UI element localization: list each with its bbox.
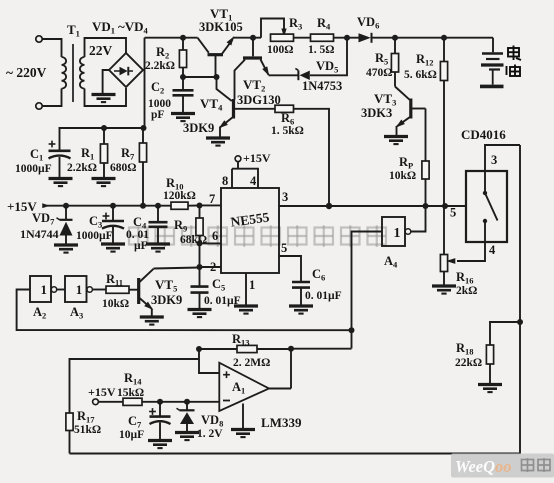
label pin 3 xyxy=(491,153,497,167)
ground at pin 1 xyxy=(234,306,258,314)
label A3 xyxy=(70,305,83,321)
node pin3/R6 xyxy=(326,203,332,209)
svg-text:pF: pF xyxy=(151,109,164,121)
rheostat R3 wiper loop xyxy=(261,19,287,38)
wire A4 output xyxy=(411,206,426,232)
node R7 bottom xyxy=(140,203,146,209)
label C5 value xyxy=(204,295,241,307)
label C3 xyxy=(89,214,102,230)
label VT5 type xyxy=(151,293,182,307)
label R18 xyxy=(456,341,474,357)
svg-text:2kΩ: 2kΩ xyxy=(456,285,477,297)
ground at VD8 xyxy=(175,433,199,441)
wire R12 to R16 xyxy=(443,81,445,255)
label R13 value xyxy=(233,357,270,369)
label R10 xyxy=(166,176,184,192)
label VD1~VD4 xyxy=(92,19,149,36)
label R3 xyxy=(289,16,302,32)
svg-text:3DK3: 3DK3 xyxy=(361,106,392,120)
svg-text:+15V: +15V xyxy=(243,151,271,165)
label VT3 type xyxy=(361,106,392,120)
label VT4 type xyxy=(183,121,214,135)
resistor R17 xyxy=(66,413,73,454)
capacitor C6 xyxy=(292,282,310,305)
ground at R16 xyxy=(432,286,456,294)
label R6 value xyxy=(271,125,304,137)
svg-text:8: 8 xyxy=(222,174,228,188)
wire VT1 base node xyxy=(183,76,217,78)
label R14 xyxy=(124,371,142,387)
label ~220V xyxy=(6,65,47,80)
zener VD5 xyxy=(295,68,309,80)
NE555 pin 5 wire xyxy=(279,256,301,282)
zener VD8 xyxy=(177,402,195,432)
svg-text:7: 7 xyxy=(209,192,215,206)
label pin 7 xyxy=(209,192,215,206)
IC CD4016 box xyxy=(466,171,507,242)
label pin 1 xyxy=(249,278,255,292)
label R12 value xyxy=(404,69,437,81)
label R17 xyxy=(77,409,95,425)
label VD8 value xyxy=(197,428,223,440)
resistor R9 xyxy=(196,206,203,268)
node C1/R1 junction xyxy=(101,125,107,131)
resistor R7 xyxy=(139,128,146,206)
label R16 value xyxy=(456,285,477,297)
label R12 xyxy=(416,52,434,68)
svg-text:+15V: +15V xyxy=(88,385,116,399)
label VD7 xyxy=(32,211,55,227)
svg-text:1: 1 xyxy=(249,278,255,292)
transformer T1 primary winding xyxy=(62,57,67,89)
label VT4 xyxy=(200,96,223,113)
label R11 xyxy=(106,272,123,288)
label R4 xyxy=(317,16,331,32)
wire primary bottom xyxy=(42,89,61,107)
node VT1 base xyxy=(214,74,220,80)
svg-text:2.2kΩ: 2.2kΩ xyxy=(67,162,97,174)
node C7 xyxy=(157,399,163,405)
label R17 value xyxy=(74,424,101,436)
resistor R3 xyxy=(271,34,294,41)
node C3 xyxy=(110,203,116,209)
ground at C5 xyxy=(188,310,212,318)
ground at C6 xyxy=(289,306,313,314)
wire battery lead xyxy=(492,38,494,53)
label R11 value xyxy=(102,298,129,310)
label R13 xyxy=(232,332,250,348)
label pin 3 (NE555) xyxy=(282,190,288,204)
svg-text:4: 4 xyxy=(489,243,496,257)
bridge rectifier VD1~VD4 xyxy=(109,53,143,87)
label C1 xyxy=(30,147,43,163)
node pin2 xyxy=(197,264,203,270)
node pin7/R9 xyxy=(197,203,203,209)
svg-text:1: 1 xyxy=(41,282,48,297)
label VT2 xyxy=(243,77,265,94)
wire R4 to VD6 node xyxy=(334,37,359,39)
label LM339 xyxy=(261,415,302,430)
node Rp bottom xyxy=(423,203,429,209)
ground at bridge xyxy=(92,95,116,103)
resistor Rp xyxy=(422,161,429,206)
svg-text:3DK105: 3DK105 xyxy=(199,20,243,34)
label C2 value xyxy=(148,98,171,121)
transistor VT1 xyxy=(198,35,237,77)
svg-text:3DK9: 3DK9 xyxy=(183,121,214,135)
label 22V xyxy=(89,43,113,58)
label VT1 type xyxy=(199,20,243,34)
wire top rail left xyxy=(145,37,198,39)
label R5 value xyxy=(366,67,392,79)
gate A2 xyxy=(30,276,57,302)
wire A4 input xyxy=(352,232,383,349)
label NE555 xyxy=(230,209,271,229)
wire A1 output xyxy=(269,388,291,390)
svg-text:1000µF: 1000µF xyxy=(76,230,113,242)
svg-text:1N4744: 1N4744 xyxy=(20,227,59,241)
wire VD5 to VT2 emitter xyxy=(269,74,299,76)
supply terminal +15V xyxy=(235,156,241,169)
wire R3-R4 xyxy=(294,37,311,39)
node right bus tap xyxy=(517,319,523,325)
wire +15V rail xyxy=(47,205,171,207)
label R1 value xyxy=(67,162,97,174)
label C4 value xyxy=(126,229,149,252)
svg-text:22kΩ: 22kΩ xyxy=(455,357,482,369)
wire output riser xyxy=(290,349,292,389)
wire bottom bus xyxy=(70,453,521,455)
svg-text:68kΩ: 68kΩ xyxy=(180,234,207,246)
wire noninv input xyxy=(199,349,219,373)
label VD6 xyxy=(357,15,379,31)
transistor VT4 xyxy=(217,77,276,137)
diode VD6 xyxy=(359,33,372,43)
resistor R6 xyxy=(275,105,294,112)
NE555 pin 1 wire xyxy=(245,273,247,305)
label T1 xyxy=(67,22,80,39)
gate A3 xyxy=(65,276,92,302)
resistor R10 xyxy=(171,202,200,209)
label pin 5 xyxy=(450,206,456,220)
svg-text:~ 220V: ~ 220V xyxy=(6,65,47,80)
ground at R18 xyxy=(478,385,502,393)
node VT2 collector rail xyxy=(250,35,256,41)
svg-text:LM339: LM339 xyxy=(261,415,302,430)
node VD8 xyxy=(184,399,190,405)
wire secondary top xyxy=(85,38,127,57)
capacitor C7 xyxy=(149,402,170,440)
label Rp value xyxy=(389,170,416,182)
node divider tap xyxy=(442,203,448,209)
label VT1 xyxy=(210,6,232,23)
svg-text:10kΩ: 10kΩ xyxy=(389,170,416,182)
wire raw DC horizontal xyxy=(59,127,145,129)
transformer T1 secondary winding xyxy=(80,57,85,89)
wire A2 input loop xyxy=(17,290,352,331)
label C1 value xyxy=(15,163,52,175)
wire A2-A3 xyxy=(57,289,65,291)
NE555 pin 2 wire xyxy=(200,266,222,268)
label R7 value xyxy=(110,162,136,174)
wire bridge ground lead xyxy=(103,70,109,94)
label VT3 xyxy=(374,91,396,108)
wire A1 ground lead xyxy=(242,404,244,429)
resistor R18 xyxy=(486,345,493,384)
label R9 value xyxy=(180,234,207,246)
label VT2 type xyxy=(237,93,281,107)
resistor R5 xyxy=(391,38,398,87)
svg-text:1: 1 xyxy=(76,282,83,297)
capacitor C2 xyxy=(173,77,194,113)
label VD5 type xyxy=(302,79,342,93)
svg-text:22V: 22V xyxy=(89,43,113,58)
svg-text:5. 6kΩ: 5. 6kΩ xyxy=(404,69,437,81)
label pin 4 xyxy=(489,243,496,257)
label pin 5 (NE555) xyxy=(281,241,287,255)
node R5 top xyxy=(392,35,398,41)
label battery 电池 xyxy=(507,46,522,77)
svg-text:3DK9: 3DK9 xyxy=(151,293,182,307)
label R18 value xyxy=(455,357,482,369)
label pin 6 xyxy=(212,229,218,243)
svg-text:2: 2 xyxy=(210,260,216,274)
label C4 xyxy=(133,215,147,231)
svg-text:51kΩ: 51kΩ xyxy=(74,424,101,436)
label pin 8 xyxy=(222,174,228,188)
label R5 xyxy=(375,51,388,67)
label VD7 type xyxy=(20,227,59,241)
IC NE555 box xyxy=(221,188,279,273)
wire control line xyxy=(329,205,466,207)
svg-text:WeeQoo: WeeQoo xyxy=(455,457,512,476)
wire secondary bottom xyxy=(85,88,127,106)
ground at C4 xyxy=(146,244,170,252)
label C5 xyxy=(212,277,225,293)
label +15V rail xyxy=(7,199,50,214)
label A2 xyxy=(33,305,46,321)
label R3 value xyxy=(267,44,293,56)
NE555 pin 7 wire xyxy=(200,204,222,206)
label R14 value xyxy=(117,387,144,399)
label A1 xyxy=(232,380,245,396)
NE555 pin 6 wire xyxy=(200,242,222,244)
node R2 top xyxy=(180,35,186,41)
label R16 xyxy=(456,270,474,286)
label R6 xyxy=(281,111,294,127)
svg-text:3: 3 xyxy=(282,190,288,204)
watermark company text xyxy=(129,225,386,247)
svg-text:5: 5 xyxy=(281,241,287,255)
wire VT3 base to Rp xyxy=(425,109,427,162)
resistor R4 xyxy=(311,34,334,41)
label C7 value xyxy=(119,429,144,441)
ground at C3 xyxy=(101,244,125,252)
capacitor C3 xyxy=(102,206,124,243)
svg-text:5: 5 xyxy=(450,206,456,220)
capacitor C4 xyxy=(149,206,168,243)
svg-text:100Ω: 100Ω xyxy=(267,44,293,56)
wire right bus xyxy=(519,145,521,454)
label C6 value xyxy=(305,290,342,302)
ground at VT3 xyxy=(384,137,408,145)
gate A4 xyxy=(382,217,411,246)
ground at VT5 xyxy=(140,317,164,325)
ground at R1 xyxy=(92,179,116,187)
CD4016 pin 4 wire xyxy=(446,242,485,264)
transistor VT2 xyxy=(235,38,272,100)
label +15V (A1) xyxy=(88,385,116,399)
svg-text:15kΩ: 15kΩ xyxy=(117,387,144,399)
svg-text:6: 6 xyxy=(212,229,218,243)
node R7 junction xyxy=(141,125,147,131)
label C6 xyxy=(312,267,325,283)
resistor R14 xyxy=(123,398,142,405)
wire R6 to pin3 xyxy=(294,109,330,206)
CD4016 pin 3 wire xyxy=(485,145,520,171)
ground at C1 xyxy=(49,179,73,187)
svg-text:1000µF: 1000µF xyxy=(15,163,52,175)
capacitor C5 xyxy=(191,267,209,309)
wire VD6 to battery xyxy=(372,37,494,39)
ground at C7 xyxy=(148,441,172,449)
svg-text:4: 4 xyxy=(250,174,257,188)
svg-text:1. 5kΩ: 1. 5kΩ xyxy=(271,125,304,137)
wire bridge output xyxy=(143,69,145,71)
svg-text:0. 01µF: 0. 01µF xyxy=(305,290,342,302)
zener VD7 xyxy=(57,206,73,244)
svg-text:680Ω: 680Ω xyxy=(110,162,136,174)
wire feedback bottom xyxy=(291,348,352,350)
node R13 right xyxy=(288,346,294,352)
NE555 pin 8 wire xyxy=(231,169,233,188)
label VD8 xyxy=(201,413,223,429)
ground at A1 xyxy=(231,430,255,438)
svg-text:470Ω: 470Ω xyxy=(366,67,392,79)
CD4016 switch symbol xyxy=(483,171,498,242)
label R4 value xyxy=(308,44,334,56)
svg-text:10kΩ: 10kΩ xyxy=(102,298,129,310)
label A4 xyxy=(384,254,398,270)
wire R11-VT5 xyxy=(129,289,138,291)
node A4 feedback xyxy=(349,327,355,333)
label C7 xyxy=(128,414,142,430)
svg-text:CD4016: CD4016 xyxy=(461,127,506,142)
node VD7 xyxy=(63,203,69,209)
node R4/VD5 xyxy=(344,35,350,41)
svg-text:1. 2V: 1. 2V xyxy=(197,428,223,440)
wire top rail mid xyxy=(233,37,261,39)
node R2 bottom xyxy=(180,74,186,80)
label C3 value xyxy=(76,230,113,242)
svg-text:0. 01µF: 0. 01µF xyxy=(204,295,241,307)
label pin 2 xyxy=(210,260,216,274)
supply terminal +15V (A1) xyxy=(93,399,123,405)
label R2 xyxy=(156,45,169,61)
label R7 xyxy=(121,146,135,162)
label R10 value xyxy=(163,190,196,202)
wire VD5 branch xyxy=(310,38,347,76)
svg-text:2. 2MΩ: 2. 2MΩ xyxy=(233,357,270,369)
wire R17 top link xyxy=(70,359,200,413)
node R9/pin6 xyxy=(197,240,203,246)
label Rp xyxy=(399,155,413,171)
node R12 top xyxy=(441,35,447,41)
ground at VD7 xyxy=(54,245,78,253)
svg-text:10µF: 10µF xyxy=(119,429,144,441)
wire primary top xyxy=(42,39,61,57)
svg-text:3: 3 xyxy=(491,153,497,167)
ground at VT4 xyxy=(206,138,230,146)
transformer T1 primary terminal top xyxy=(36,36,42,42)
wire raw DC vertical xyxy=(144,38,146,128)
transformer T1 primary terminal bottom xyxy=(36,103,42,109)
node R13 left xyxy=(196,346,202,352)
label +15V (NE555) xyxy=(243,151,271,165)
svg-text:µF: µF xyxy=(134,240,148,252)
resistor R13 xyxy=(199,345,291,352)
label R1 xyxy=(81,146,94,162)
NE555 pin 3 wire xyxy=(279,205,329,207)
op-amp A1 xyxy=(219,363,269,411)
label VD5 xyxy=(316,59,338,75)
svg-text:1. 5Ω: 1. 5Ω xyxy=(308,44,334,56)
resistor R2 xyxy=(179,38,186,77)
capacitor C1 xyxy=(49,128,71,177)
wire R18 branch xyxy=(490,322,520,345)
label VT5 xyxy=(155,277,177,294)
transistor VT5 xyxy=(139,269,155,316)
wire VT5 collector xyxy=(154,268,200,269)
resistor R12 xyxy=(440,38,447,81)
label C2 xyxy=(151,80,164,96)
svg-text:1: 1 xyxy=(394,226,401,241)
svg-text:2.2kΩ: 2.2kΩ xyxy=(145,60,175,72)
resistor R1 xyxy=(100,128,107,177)
wire inv input xyxy=(142,401,219,403)
resistor R11 xyxy=(106,286,129,293)
battery GB xyxy=(480,54,504,87)
NE555 pin 4 wire xyxy=(232,169,258,188)
wire A3-R11 xyxy=(92,289,106,291)
label R2 value xyxy=(145,60,175,72)
svg-text:120kΩ: 120kΩ xyxy=(163,190,196,202)
label CD4016 xyxy=(461,127,506,142)
svg-text:1N4753: 1N4753 xyxy=(302,79,342,93)
transformer T1 core xyxy=(72,44,74,102)
label R9 xyxy=(174,218,187,234)
node C4 xyxy=(155,203,161,209)
watermark WeeQoo xyxy=(451,454,554,478)
transistor VT3 xyxy=(394,87,426,136)
resistor R16 xyxy=(440,255,447,286)
ground at C2 xyxy=(171,114,195,122)
label pin 4 xyxy=(250,174,257,188)
